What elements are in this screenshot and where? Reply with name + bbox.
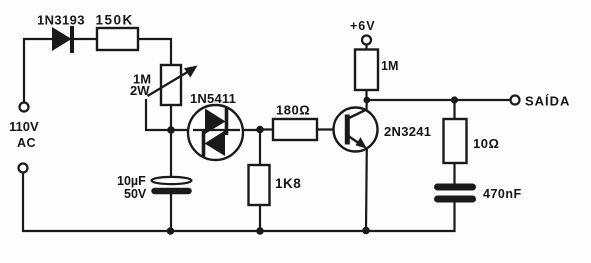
wire pot bottom lead [170, 105, 172, 131]
node 10uF to rail junction [167, 227, 175, 235]
svg-text:1N5411: 1N5411 [190, 91, 236, 106]
wire 1N5411 node down through 1K8 to rail [259, 130, 261, 232]
svg-text:10µF: 10µF [117, 174, 146, 188]
label 110V AC [9, 119, 39, 150]
node 1N5411 / 1K8 / 180 ohm junction [256, 126, 264, 134]
svg-text:1K8: 1K8 [275, 176, 301, 191]
svg-text:150K: 150K [96, 13, 134, 28]
capacitor 10uF 50V [117, 174, 192, 201]
wire 1N5411 node to 180 ohm and transistor base [260, 128, 344, 130]
resistor 150K [96, 13, 139, 51]
diode 1N3193 [37, 13, 85, 54]
potentiometer 1M 2W [130, 65, 198, 105]
resistor 10 ohm [444, 119, 500, 163]
svg-text:50V: 50V [124, 187, 147, 201]
node collector / 1M junction [363, 97, 370, 104]
svg-text:470nF: 470nF [483, 187, 522, 201]
wire 10uF capacitor bottom to rail [170, 193, 172, 231]
wire transistor emitter to bottom rail [365, 147, 368, 231]
svg-text:AC: AC [17, 136, 36, 150]
node emitter to rail junction [362, 227, 370, 235]
svg-text:1N3193: 1N3193 [37, 13, 85, 28]
resistor 1K8 [249, 165, 302, 205]
svg-text:1M: 1M [381, 59, 398, 73]
capacitor 470nF [438, 187, 522, 201]
resistor 1M [355, 50, 398, 91]
terminal SAIDA [511, 94, 571, 109]
node 1K8 to rail junction [256, 227, 264, 235]
terminal +6V [350, 19, 376, 45]
wire collector node to SAIDA terminal [367, 99, 511, 101]
resistor 180 ohm [273, 103, 317, 141]
terminal 110V AC lower [19, 164, 28, 173]
wire SAIDA node down through 10 ohm to 470nF [453, 100, 455, 184]
svg-text:110V: 110V [9, 119, 39, 134]
wire top-left net from 110V AC to 150K and pot [24, 39, 171, 103]
node pot bottom / wiper junction [167, 126, 175, 134]
wire node to 10uF capacitor top [170, 129, 172, 178]
svg-text:10Ω: 10Ω [473, 136, 499, 151]
svg-text:2N3241: 2N3241 [384, 124, 431, 139]
svg-text:+6V: +6V [350, 19, 376, 33]
diac 1N5411 [188, 91, 243, 160]
svg-text:2W: 2W [130, 83, 150, 98]
svg-text:SAÍDA: SAÍDA [525, 94, 570, 109]
svg-text:180Ω: 180Ω [276, 103, 310, 118]
transistor 2N3241 [334, 99, 432, 152]
terminal 110V AC upper [20, 103, 29, 112]
wire pot wiper to 1N5411 node [146, 99, 260, 130]
node SAIDA / 10 ohm junction [451, 96, 458, 103]
wire 110V AC lower lead and bottom rail [23, 173, 455, 232]
wire +6V terminal through 1M to collector node [365, 45, 367, 101]
